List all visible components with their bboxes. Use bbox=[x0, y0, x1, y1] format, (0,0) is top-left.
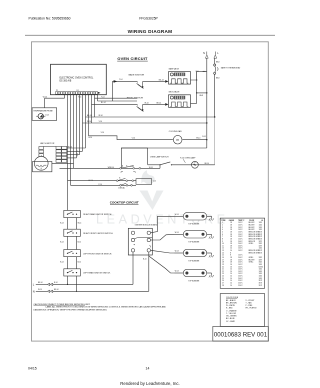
svg-text:BK-14: BK-14 bbox=[54, 289, 59, 291]
svg-text:TOP BURNER: TOP BURNER bbox=[188, 242, 200, 244]
svg-text:W/BK-14: W/BK-14 bbox=[108, 167, 114, 169]
svg-text:BU-14: BU-14 bbox=[159, 80, 164, 82]
svg-text:1015: 1015 bbox=[259, 225, 263, 227]
svg-text:W-14: W-14 bbox=[175, 232, 179, 234]
L bus wire upper bbox=[214, 58, 216, 64]
svg-text:8: 8 bbox=[230, 255, 231, 257]
burner wire bbox=[175, 252, 184, 254]
svg-text:BAKE VALVE: BAKE VALVE bbox=[169, 68, 180, 71]
svg-text:L: L bbox=[33, 283, 35, 287]
svg-text:200°C: 200°C bbox=[238, 245, 243, 247]
svg-text:14: 14 bbox=[230, 271, 232, 273]
svg-text:Y-14: Y-14 bbox=[119, 79, 122, 81]
ignitor switch S2 bbox=[64, 229, 81, 236]
svg-text:3173: 3173 bbox=[259, 231, 263, 233]
svg-text:BRN-/OR: BRN-/OR bbox=[249, 241, 256, 243]
svg-text:3173: 3173 bbox=[259, 236, 263, 238]
svg-text:18: 18 bbox=[230, 229, 232, 231]
svg-text:105°C: 105°C bbox=[238, 250, 243, 252]
svg-text:16: 16 bbox=[222, 257, 224, 259]
svg-text:GY - GRAY: GY - GRAY bbox=[226, 320, 236, 323]
svg-text:04/15: 04/15 bbox=[28, 367, 37, 371]
top burner B1 bbox=[183, 213, 206, 220]
wire bundle from EOC connector bbox=[64, 95, 66, 99]
svg-text:8: 8 bbox=[222, 238, 223, 240]
svg-text:20: 20 bbox=[222, 266, 224, 268]
door switch row 2 bbox=[68, 180, 137, 182]
svg-text:1015: 1015 bbox=[259, 248, 263, 250]
top burner B4 bbox=[183, 269, 206, 276]
svg-text:1015: 1015 bbox=[259, 276, 263, 278]
svg-text:BK-8: BK-8 bbox=[216, 61, 220, 63]
wire module left leg bbox=[132, 252, 134, 284]
svg-text:1015: 1015 bbox=[259, 278, 263, 280]
svg-text:3: 3 bbox=[222, 227, 223, 229]
svg-text:60730: 60730 bbox=[259, 266, 263, 268]
svg-text:P-14: P-14 bbox=[99, 184, 102, 186]
svg-text:Y-14: Y-14 bbox=[78, 97, 81, 99]
svg-text:Y-14: Y-14 bbox=[132, 137, 135, 139]
wire broil valve output bbox=[191, 102, 197, 104]
svg-text:Rendered by LeadVenture, Inc.: Rendered by LeadVenture, Inc. bbox=[120, 381, 179, 386]
svg-text:105°C: 105°C bbox=[238, 264, 243, 266]
wire cooling fan to N bus bbox=[183, 139, 207, 141]
svg-text:18: 18 bbox=[230, 245, 232, 247]
svg-text:BK-14: BK-14 bbox=[38, 282, 43, 284]
svg-text:W-14: W-14 bbox=[149, 167, 153, 169]
wire bake valve output bbox=[191, 71, 197, 80]
svg-text:105°C: 105°C bbox=[238, 273, 243, 275]
svg-text:F-14 OVEN LAMP: F-14 OVEN LAMP bbox=[180, 156, 196, 159]
svg-text:9: 9 bbox=[222, 241, 223, 243]
svg-text:105°C: 105°C bbox=[238, 229, 243, 231]
svg-text:BK-14: BK-14 bbox=[87, 115, 92, 117]
wire to temperature probe bbox=[45, 98, 65, 108]
svg-text:BK-14: BK-14 bbox=[157, 103, 162, 105]
svg-text:18: 18 bbox=[230, 238, 232, 240]
svg-text:18: 18 bbox=[230, 225, 232, 227]
svg-text:R-14: R-14 bbox=[202, 136, 206, 138]
svg-text:LATCH MOTOR: LATCH MOTOR bbox=[40, 142, 55, 145]
wire module right leg bbox=[148, 252, 150, 291]
lamp switch feed bbox=[121, 147, 147, 149]
svg-text:BROIL VALVE: BROIL VALVE bbox=[169, 91, 181, 94]
ignitor switch S3 bbox=[64, 250, 81, 257]
svg-text:BK-8: BK-8 bbox=[216, 78, 220, 80]
burner ground bbox=[207, 272, 212, 274]
svg-text:21: 21 bbox=[222, 269, 224, 271]
svg-text:LEADVENTURE: LEADVENTURE bbox=[96, 213, 229, 227]
svg-text:14: 14 bbox=[230, 285, 232, 287]
svg-text:W-14: W-14 bbox=[175, 271, 179, 273]
svg-text:B: B bbox=[119, 178, 120, 180]
svg-text:200°C: 200°C bbox=[238, 257, 243, 259]
svg-text:2: 2 bbox=[222, 225, 223, 227]
svg-text:BRN-/OR GRN: BRN-/OR GRN bbox=[249, 231, 259, 233]
svg-text:16: 16 bbox=[230, 264, 232, 266]
wire EOC to N bus bbox=[83, 122, 207, 124]
wire oven lamp to L bus bbox=[198, 164, 214, 166]
svg-text:23: 23 bbox=[222, 273, 224, 275]
svg-text:14: 14 bbox=[230, 283, 232, 285]
burner wire bbox=[175, 272, 184, 274]
svg-text:IGNITER MODULE BOARD: IGNITER MODULE BOARD bbox=[135, 224, 158, 227]
ignitor switch S4 bbox=[64, 269, 81, 276]
svg-text:COOLING FAN: COOLING FAN bbox=[169, 130, 182, 133]
svg-text:B-14: B-14 bbox=[78, 242, 81, 244]
door latch switch box bbox=[136, 179, 152, 185]
svg-text:BK-GRY: BK-GRY bbox=[249, 227, 255, 229]
svg-text:3173: 3173 bbox=[259, 238, 263, 240]
svg-text:105°C: 105°C bbox=[238, 225, 243, 227]
svg-text:Y-14: Y-14 bbox=[99, 121, 102, 123]
svg-text:25: 25 bbox=[222, 278, 224, 280]
svg-text:105°C: 105°C bbox=[238, 227, 243, 229]
svg-text:BK-14: BK-14 bbox=[205, 163, 210, 165]
svg-text:B-14: B-14 bbox=[60, 242, 63, 244]
svg-text:18: 18 bbox=[230, 227, 232, 229]
lamp feed wire from N bus corner bbox=[121, 148, 207, 168]
svg-text:1015: 1015 bbox=[259, 269, 263, 271]
wire latch motor output bbox=[52, 162, 74, 164]
svg-text:W-14: W-14 bbox=[175, 251, 179, 253]
revision box bbox=[213, 327, 268, 342]
N bus wire bbox=[206, 58, 208, 148]
svg-text:GRN-1: GRN-1 bbox=[249, 243, 254, 245]
svg-text:BK-14: BK-14 bbox=[68, 146, 73, 148]
svg-text:10: 10 bbox=[222, 243, 224, 245]
svg-text:200°C: 200°C bbox=[238, 243, 243, 245]
svg-text:7: 7 bbox=[222, 236, 223, 238]
svg-text:17: 17 bbox=[222, 259, 224, 261]
svg-text:ES 300 A/B: ES 300 A/B bbox=[60, 80, 72, 83]
svg-text:B-14: B-14 bbox=[60, 262, 63, 264]
latch motor connector wires bbox=[67, 147, 86, 149]
svg-text:W-14: W-14 bbox=[175, 214, 179, 216]
svg-text:14: 14 bbox=[230, 280, 232, 282]
svg-text:3257: 3257 bbox=[259, 241, 263, 243]
svg-text:GRN-1: GRN-1 bbox=[249, 262, 254, 264]
svg-text:GY-14: GY-14 bbox=[88, 180, 93, 182]
svg-text:200°C: 200°C bbox=[238, 278, 243, 280]
svg-text:UL: UL bbox=[261, 220, 263, 222]
svg-text:COOKTOP CIRCUIT: COOKTOP CIRCUIT bbox=[110, 201, 139, 205]
ground wire GN-8 bbox=[197, 92, 207, 94]
svg-text:PR - PURPLE: PR - PURPLE bbox=[246, 308, 258, 310]
latch motor body bbox=[40, 155, 42, 156]
svg-text:WIRING DIAGRAM: WIRING DIAGRAM bbox=[128, 29, 173, 34]
ignitor switch S1 bbox=[64, 210, 81, 217]
svg-text:5: 5 bbox=[222, 231, 223, 233]
burner ground bbox=[207, 215, 212, 217]
svg-text:1015: 1015 bbox=[259, 229, 263, 231]
temperature probe bbox=[32, 108, 57, 121]
svg-text:105°C: 105°C bbox=[238, 222, 243, 224]
electronic oven control U1 bbox=[51, 64, 107, 94]
svg-text:O - ORANGE: O - ORANGE bbox=[226, 309, 237, 312]
header rule bbox=[25, 34, 275, 36]
svg-text:200°C: 200°C bbox=[238, 241, 243, 243]
svg-text:L: L bbox=[217, 52, 219, 55]
svg-text:3173: 3173 bbox=[259, 252, 263, 254]
svg-text:BK-GRY: BK-GRY bbox=[249, 259, 255, 261]
svg-text:A B B (A): A B B (A) bbox=[119, 186, 126, 189]
cooktop left bus bbox=[67, 181, 69, 285]
svg-text:N: N bbox=[203, 52, 205, 55]
svg-text:BRN-/OR GRN: BRN-/OR GRN bbox=[249, 236, 259, 238]
svg-text:OVEN LAMP SWITCH: OVEN LAMP SWITCH bbox=[150, 156, 169, 159]
svg-text:RIGHT FRONT IGNITOR SWITCH.: RIGHT FRONT IGNITOR SWITCH. bbox=[83, 233, 113, 235]
svg-text:3173: 3173 bbox=[259, 234, 263, 236]
svg-text:COLOR: COLOR bbox=[249, 220, 255, 222]
svg-text:W-14: W-14 bbox=[87, 121, 91, 123]
svg-text:18: 18 bbox=[230, 222, 232, 224]
svg-text:12: 12 bbox=[222, 248, 224, 250]
svg-text:FFGS3025P: FFGS3025P bbox=[139, 16, 158, 20]
svg-text:18: 18 bbox=[230, 257, 232, 259]
svg-text:250°C: 250°C bbox=[238, 259, 243, 261]
svg-text:3173: 3173 bbox=[259, 250, 263, 252]
svg-text:LABEL ALL WIRES PRIOR TO DISCO: LABEL ALL WIRES PRIOR TO DISCONNECTION W… bbox=[46, 306, 167, 309]
svg-text:6: 6 bbox=[222, 234, 223, 236]
svg-text:14: 14 bbox=[230, 250, 232, 252]
svg-text:B-14: B-14 bbox=[89, 137, 93, 139]
svg-text:8: 8 bbox=[230, 252, 231, 254]
svg-text:T - TAN: T - TAN bbox=[246, 301, 253, 304]
svg-text:150°C: 150°C bbox=[238, 236, 243, 238]
svg-text:27: 27 bbox=[222, 283, 224, 285]
svg-text:24: 24 bbox=[222, 276, 224, 278]
svg-text:105°C: 105°C bbox=[238, 269, 243, 271]
svg-text:Y-14: Y-14 bbox=[153, 181, 156, 183]
svg-text:19: 19 bbox=[222, 264, 224, 266]
svg-text:A: A bbox=[122, 164, 123, 167]
svg-text:150°C: 150°C bbox=[238, 238, 243, 240]
svg-text:3173: 3173 bbox=[259, 285, 263, 287]
svg-text:1015: 1015 bbox=[259, 264, 263, 266]
svg-text:W-14: W-14 bbox=[43, 96, 47, 98]
svg-text:GN-8: GN-8 bbox=[199, 95, 203, 97]
svg-text:200°C: 200°C bbox=[238, 276, 243, 278]
svg-text:11: 11 bbox=[222, 245, 224, 247]
svg-text:GAUGE: GAUGE bbox=[229, 219, 234, 222]
svg-text:BK-GRY: BK-GRY bbox=[249, 225, 255, 227]
svg-text:105°C: 105°C bbox=[238, 255, 243, 257]
svg-text:W-8: W-8 bbox=[196, 71, 199, 73]
svg-text:DANGEROUS OPERATION. VERIFY PR: DANGEROUS OPERATION. VERIFY PROPER OPERA… bbox=[34, 308, 108, 311]
svg-text:00010683 REV 001: 00010683 REV 001 bbox=[214, 332, 268, 339]
svg-text:GRN-1: GRN-1 bbox=[249, 257, 254, 259]
svg-text:BRN-/OR GRN: BRN-/OR GRN bbox=[249, 252, 259, 254]
svg-text:14: 14 bbox=[230, 276, 232, 278]
svg-text:B-14: B-14 bbox=[143, 258, 146, 260]
svg-text:LEFT FRONT IGNITOR SWITCH.: LEFT FRONT IGNITOR SWITCH. bbox=[83, 253, 112, 255]
svg-text:18: 18 bbox=[230, 262, 232, 264]
svg-text:18: 18 bbox=[230, 243, 232, 245]
svg-text:105°C: 105°C bbox=[238, 248, 243, 250]
svg-text:F5: F5 bbox=[194, 162, 196, 164]
svg-text:SAFETY THERMOSTAT: SAFETY THERMOSTAT bbox=[221, 67, 241, 70]
burner wire bbox=[175, 233, 184, 235]
svg-text:B-14: B-14 bbox=[60, 222, 63, 224]
wire EOC to L bus bbox=[86, 116, 215, 118]
svg-text:3173: 3173 bbox=[259, 283, 263, 285]
watermark logo V bbox=[140, 170, 164, 210]
cooktop right bus bbox=[76, 215, 78, 291]
svg-text:BAKE IGNITOR: BAKE IGNITOR bbox=[129, 73, 145, 76]
svg-text:14: 14 bbox=[222, 252, 224, 254]
svg-text:18: 18 bbox=[230, 231, 232, 233]
svg-text:BRN-/OR GRN: BRN-/OR GRN bbox=[249, 238, 259, 240]
svg-text:3321: 3321 bbox=[259, 243, 263, 245]
svg-text:V-14: V-14 bbox=[45, 115, 49, 117]
svg-text:18: 18 bbox=[230, 234, 232, 236]
svg-text:250°C: 250°C bbox=[238, 285, 243, 287]
svg-text:14: 14 bbox=[230, 273, 232, 275]
burner ground bbox=[207, 252, 212, 254]
svg-text:3257: 3257 bbox=[259, 259, 263, 261]
svg-text:B-14: B-14 bbox=[54, 282, 57, 284]
svg-text:CODE: CODE bbox=[221, 220, 225, 222]
svg-text:1015: 1015 bbox=[259, 222, 263, 224]
burner ground bbox=[207, 233, 212, 235]
svg-text:W-14: W-14 bbox=[196, 138, 200, 140]
svg-text:LEFT REAR IGNITOR SWITCH.: LEFT REAR IGNITOR SWITCH. bbox=[83, 272, 111, 275]
svg-text:1015: 1015 bbox=[259, 271, 263, 273]
module to burner wires bbox=[151, 216, 175, 233]
svg-text:ELECTRONIC OVEN CONTROL: ELECTRONIC OVEN CONTROL bbox=[60, 78, 95, 80]
svg-text:W-14: W-14 bbox=[145, 103, 149, 105]
svg-text:18: 18 bbox=[230, 241, 232, 243]
wire broil ignitor to broil valve bbox=[143, 103, 166, 105]
svg-text:B-14: B-14 bbox=[78, 262, 81, 264]
svg-text:TEMP °C: TEMP °C bbox=[238, 220, 244, 222]
svg-text:Y-14: Y-14 bbox=[101, 97, 104, 99]
svg-text:BRN-/OR GRN: BRN-/OR GRN bbox=[249, 250, 259, 252]
svg-text:150°C: 150°C bbox=[238, 234, 243, 236]
svg-text:3321: 3321 bbox=[259, 262, 263, 264]
door switch row 3 bbox=[71, 184, 137, 186]
svg-text:150°C: 150°C bbox=[238, 231, 243, 233]
svg-text:250°C: 250°C bbox=[238, 283, 243, 285]
svg-text:14: 14 bbox=[230, 269, 232, 271]
svg-text:BK - BLACK: BK - BLACK bbox=[226, 299, 236, 302]
burner wire bbox=[175, 215, 184, 217]
wire EOC to cooling fan bbox=[89, 136, 173, 140]
svg-text:TOP BURNER: TOP BURNER bbox=[188, 224, 200, 226]
EOC strip arrow bbox=[98, 92, 101, 94]
svg-text:BK-GRY: BK-GRY bbox=[249, 222, 255, 224]
svg-text:Publication No: 5995659660: Publication No: 5995659660 bbox=[29, 16, 71, 20]
door switch row bbox=[60, 167, 161, 169]
svg-text:4: 4 bbox=[222, 229, 223, 231]
svg-text:W-14: W-14 bbox=[78, 222, 82, 224]
svg-text:22: 22 bbox=[222, 271, 224, 273]
svg-text:13: 13 bbox=[222, 250, 224, 252]
svg-text:W-14: W-14 bbox=[99, 115, 103, 117]
svg-text:3257: 3257 bbox=[259, 245, 263, 247]
valve common wire bbox=[196, 71, 198, 103]
svg-text:250°C: 250°C bbox=[238, 280, 243, 282]
svg-text:3321: 3321 bbox=[259, 257, 263, 259]
top burner B3 bbox=[183, 249, 206, 256]
svg-text:105°C: 105°C bbox=[238, 271, 243, 273]
svg-text:Y-14: Y-14 bbox=[101, 132, 104, 134]
wire bake ignitor to bake valve bbox=[143, 80, 166, 82]
svg-text:TEMPERATURE PROBE: TEMPERATURE PROBE bbox=[33, 109, 53, 112]
svg-text:TOP BURNER: TOP BURNER bbox=[188, 260, 200, 262]
svg-text:18: 18 bbox=[230, 259, 232, 261]
color code legend bbox=[220, 294, 264, 327]
svg-text:28: 28 bbox=[222, 285, 224, 287]
wire gauge table bbox=[220, 218, 264, 288]
svg-text:1015: 1015 bbox=[259, 273, 263, 275]
L bus wire lower bbox=[214, 74, 216, 117]
svg-text:1015: 1015 bbox=[259, 227, 263, 229]
svg-text:N: N bbox=[33, 290, 35, 294]
svg-text:BK-GRY: BK-GRY bbox=[249, 229, 255, 231]
svg-text:250°C: 250°C bbox=[238, 262, 243, 264]
svg-text:26: 26 bbox=[222, 280, 224, 282]
svg-text:1: 1 bbox=[222, 222, 223, 224]
svg-text:14: 14 bbox=[230, 278, 232, 280]
wire EOC to broil ignitor bbox=[92, 103, 138, 105]
svg-text:RIGHT REAR IGNITOR SWITCH.: RIGHT REAR IGNITOR SWITCH. bbox=[83, 213, 112, 216]
svg-text:18: 18 bbox=[230, 236, 232, 238]
svg-text:BRN-/OR GRN: BRN-/OR GRN bbox=[249, 234, 259, 236]
svg-text:16: 16 bbox=[230, 266, 232, 268]
svg-text:105°C: 105°C bbox=[238, 266, 243, 268]
top burner B2 bbox=[183, 231, 206, 238]
wire EOC to bake ignitor bbox=[113, 81, 138, 101]
svg-text:3173: 3173 bbox=[259, 280, 263, 282]
diagram border frame bbox=[32, 42, 269, 341]
svg-text:18: 18 bbox=[222, 262, 224, 264]
svg-text:W-14: W-14 bbox=[38, 289, 42, 291]
svg-text:OVEN CIRCUIT: OVEN CIRCUIT bbox=[117, 56, 148, 61]
svg-text:14: 14 bbox=[146, 367, 150, 371]
svg-text:15: 15 bbox=[222, 255, 224, 257]
svg-text:m: m bbox=[176, 138, 179, 142]
svg-text:TOP BURNER: TOP BURNER bbox=[188, 280, 200, 282]
svg-text:14: 14 bbox=[230, 248, 232, 250]
svg-text:BL-14: BL-14 bbox=[101, 102, 106, 104]
